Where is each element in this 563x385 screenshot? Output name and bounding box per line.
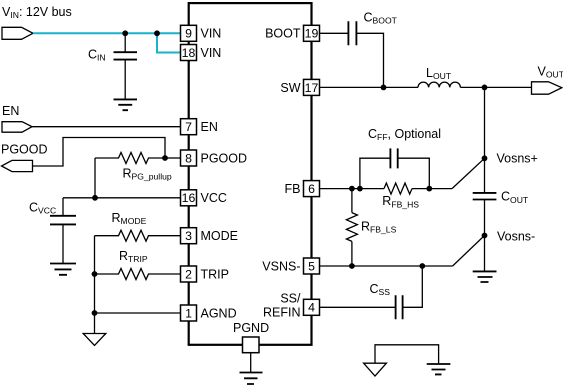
node junction VSNS-/CSS xyxy=(419,263,425,269)
ground bars PGND tie xyxy=(427,364,451,374)
node junction FB/CFF xyxy=(357,186,363,192)
wire RFB_LS bottom lead xyxy=(351,241,353,266)
svg-text:FB: FB xyxy=(285,182,301,196)
svg-text:17: 17 xyxy=(305,81,319,95)
wire PGND lead xyxy=(250,353,252,373)
pin 4 (SS/REFIN) xyxy=(263,291,320,319)
ground triangle AGND tie xyxy=(364,363,387,376)
svg-text:EN: EN xyxy=(2,104,19,118)
wire VSNS- row xyxy=(320,265,453,267)
pin 9 (VIN) xyxy=(181,25,222,41)
svg-text:COUT: COUT xyxy=(501,190,529,205)
wire AGND row xyxy=(95,312,181,314)
wire diagonal to Vosns- xyxy=(453,236,485,267)
svg-text:8: 8 xyxy=(185,151,192,165)
node junction RTRIP/rail xyxy=(92,271,98,277)
wire RFB_HS to diagonal xyxy=(412,188,452,190)
wire CSS to VSNS- net xyxy=(403,266,423,307)
svg-text:SW: SW xyxy=(280,81,300,95)
resistor RPG_pullup xyxy=(95,153,165,164)
svg-text:19: 19 xyxy=(305,27,319,41)
node junction VIN/pin18 branch xyxy=(154,30,160,36)
wire junction to pin 8 xyxy=(165,157,181,159)
wire CBOOT to SW node xyxy=(356,33,383,87)
svg-text:RMODE: RMODE xyxy=(112,211,147,226)
pin 3 (MODE) xyxy=(181,228,239,244)
svg-text:CSS: CSS xyxy=(370,282,391,297)
resistor RFB_HS xyxy=(384,183,412,194)
pin 19 (BOOT) xyxy=(265,25,319,41)
capacitor CIN xyxy=(114,52,138,59)
svg-text:RPG_pullup: RPG_pullup xyxy=(123,167,172,182)
node junction RFB_HS/CFF right xyxy=(426,186,432,192)
node junction VOUT sense xyxy=(482,85,488,91)
svg-text:4: 4 xyxy=(308,301,315,315)
pin 5 (VSNS-) xyxy=(262,258,319,274)
resistor RMODE xyxy=(95,230,181,241)
node junction SW/CBOOT xyxy=(381,85,387,91)
svg-text:PGOOD: PGOOD xyxy=(1,142,48,156)
wire BOOT to CBOOT xyxy=(320,32,349,34)
svg-text:3: 3 xyxy=(185,229,192,243)
svg-text:AGND: AGND xyxy=(201,306,237,320)
wire FB row xyxy=(320,188,385,190)
ground below CIN xyxy=(114,99,138,110)
wire CVCC bottom lead xyxy=(62,224,64,263)
svg-text:VIN: 12V bus: VIN: 12V bus xyxy=(2,5,72,20)
wire VIN branch to pin 18 (cyan) xyxy=(157,33,181,52)
node junction on VCC rail xyxy=(92,195,98,201)
wire VIN bus (cyan) xyxy=(33,32,181,34)
svg-text:SS/: SS/ xyxy=(280,291,301,305)
svg-text:BOOT: BOOT xyxy=(265,27,301,41)
node junction FB/RFB_LS xyxy=(349,186,355,192)
capacitor CVCC xyxy=(50,216,76,225)
capacitor CBOOT xyxy=(348,21,356,45)
svg-text:7: 7 xyxy=(185,120,192,134)
svg-text:18: 18 xyxy=(182,46,196,60)
node junction VSNS-/RFB_LS xyxy=(349,263,355,269)
svg-text:RFB_HS: RFB_HS xyxy=(382,194,419,209)
capacitor CSS xyxy=(396,295,403,319)
svg-text:5: 5 xyxy=(308,259,315,273)
capacitor CFF xyxy=(390,148,397,168)
wire CIN top lead xyxy=(124,35,126,52)
pin PGND pad xyxy=(233,321,269,353)
svg-text:6: 6 xyxy=(308,182,315,196)
svg-text:EN: EN xyxy=(201,120,218,134)
wire EN to pin 7 xyxy=(32,126,181,128)
wire CFF branch left xyxy=(360,158,391,188)
input connector VIN xyxy=(2,27,33,39)
svg-text:PGOOD: PGOOD xyxy=(201,151,248,165)
wire SW to LOUT xyxy=(320,86,419,88)
wire diagonal to Vosns+ xyxy=(452,158,485,188)
svg-text:RFB_LS: RFB_LS xyxy=(361,219,397,234)
output connector VOUT xyxy=(532,82,562,94)
wire VCC rail xyxy=(63,197,181,199)
svg-text:Vosns-: Vosns- xyxy=(497,229,535,243)
svg-text:LOUT: LOUT xyxy=(426,66,452,81)
svg-text:CIN: CIN xyxy=(88,48,106,63)
svg-text:VIN: VIN xyxy=(201,27,222,41)
pin 6 (FB) xyxy=(285,181,320,197)
pin 18 (VIN) xyxy=(181,45,222,61)
wire RPG_pullup to VCC rail xyxy=(94,158,96,198)
input connector EN xyxy=(2,122,32,133)
wire AGND-PGND tie xyxy=(375,345,439,364)
svg-text:VOUT: VOUT xyxy=(538,65,563,80)
wire sense rail lower xyxy=(484,200,486,272)
svg-text:CVCC: CVCC xyxy=(29,201,56,216)
svg-text:9: 9 xyxy=(185,27,192,41)
pin 7 (EN) xyxy=(181,119,218,135)
svg-text:VCC: VCC xyxy=(201,191,227,205)
svg-text:1: 1 xyxy=(185,306,192,320)
wire LOUT to VOUT xyxy=(460,86,531,88)
wire CFF branch right xyxy=(398,158,430,188)
wire PGOOD route xyxy=(33,138,166,167)
pin 17 (SW) xyxy=(280,79,319,95)
resistor RTRIP xyxy=(95,269,181,280)
svg-text:VIN: VIN xyxy=(201,46,222,60)
IC U1 body xyxy=(189,3,312,345)
wire CIN bottom lead xyxy=(124,60,126,99)
ground below CVCC xyxy=(50,264,76,275)
svg-text:TRIP: TRIP xyxy=(201,267,229,281)
svg-text:REFIN: REFIN xyxy=(263,306,301,320)
node Vosns- xyxy=(482,233,488,239)
wire MODE/TRIP/AGND rail xyxy=(94,236,96,334)
pin 1 (AGND) xyxy=(181,305,237,321)
svg-text:RTRIP: RTRIP xyxy=(119,249,148,264)
svg-text:VSNS-: VSNS- xyxy=(262,259,300,273)
ground AGND triangle xyxy=(83,334,106,346)
ground below COUT xyxy=(473,271,497,282)
inductor LOUT xyxy=(418,82,460,87)
node junction at pin 8 xyxy=(162,155,168,161)
capacitor COUT xyxy=(473,193,497,200)
wire RFB_LS top lead xyxy=(351,189,353,213)
svg-text:16: 16 xyxy=(182,191,196,205)
svg-text:CFF, Optional: CFF, Optional xyxy=(368,127,441,142)
node junction AGND/rail xyxy=(92,310,98,316)
pin 16 (VCC) xyxy=(181,190,227,206)
resistor RFB_LS xyxy=(346,213,357,242)
pin 8 (PGOOD) xyxy=(181,150,248,166)
ground below PGND xyxy=(240,373,263,385)
svg-text:Vosns+: Vosns+ xyxy=(497,152,538,166)
wire CVCC top lead xyxy=(62,198,64,216)
node junction VIN/CIN xyxy=(122,30,128,36)
svg-text:CBOOT: CBOOT xyxy=(364,11,398,26)
node Vosns+ xyxy=(482,155,488,161)
svg-text:2: 2 xyxy=(185,267,192,281)
svg-text:PGND: PGND xyxy=(233,321,269,335)
svg-text:MODE: MODE xyxy=(201,229,239,243)
wire sense rail upper xyxy=(484,87,486,192)
pin 2 (TRIP) xyxy=(181,266,229,282)
output connector PGOOD xyxy=(2,160,33,171)
wire SS/REFIN to CSS xyxy=(320,306,396,308)
